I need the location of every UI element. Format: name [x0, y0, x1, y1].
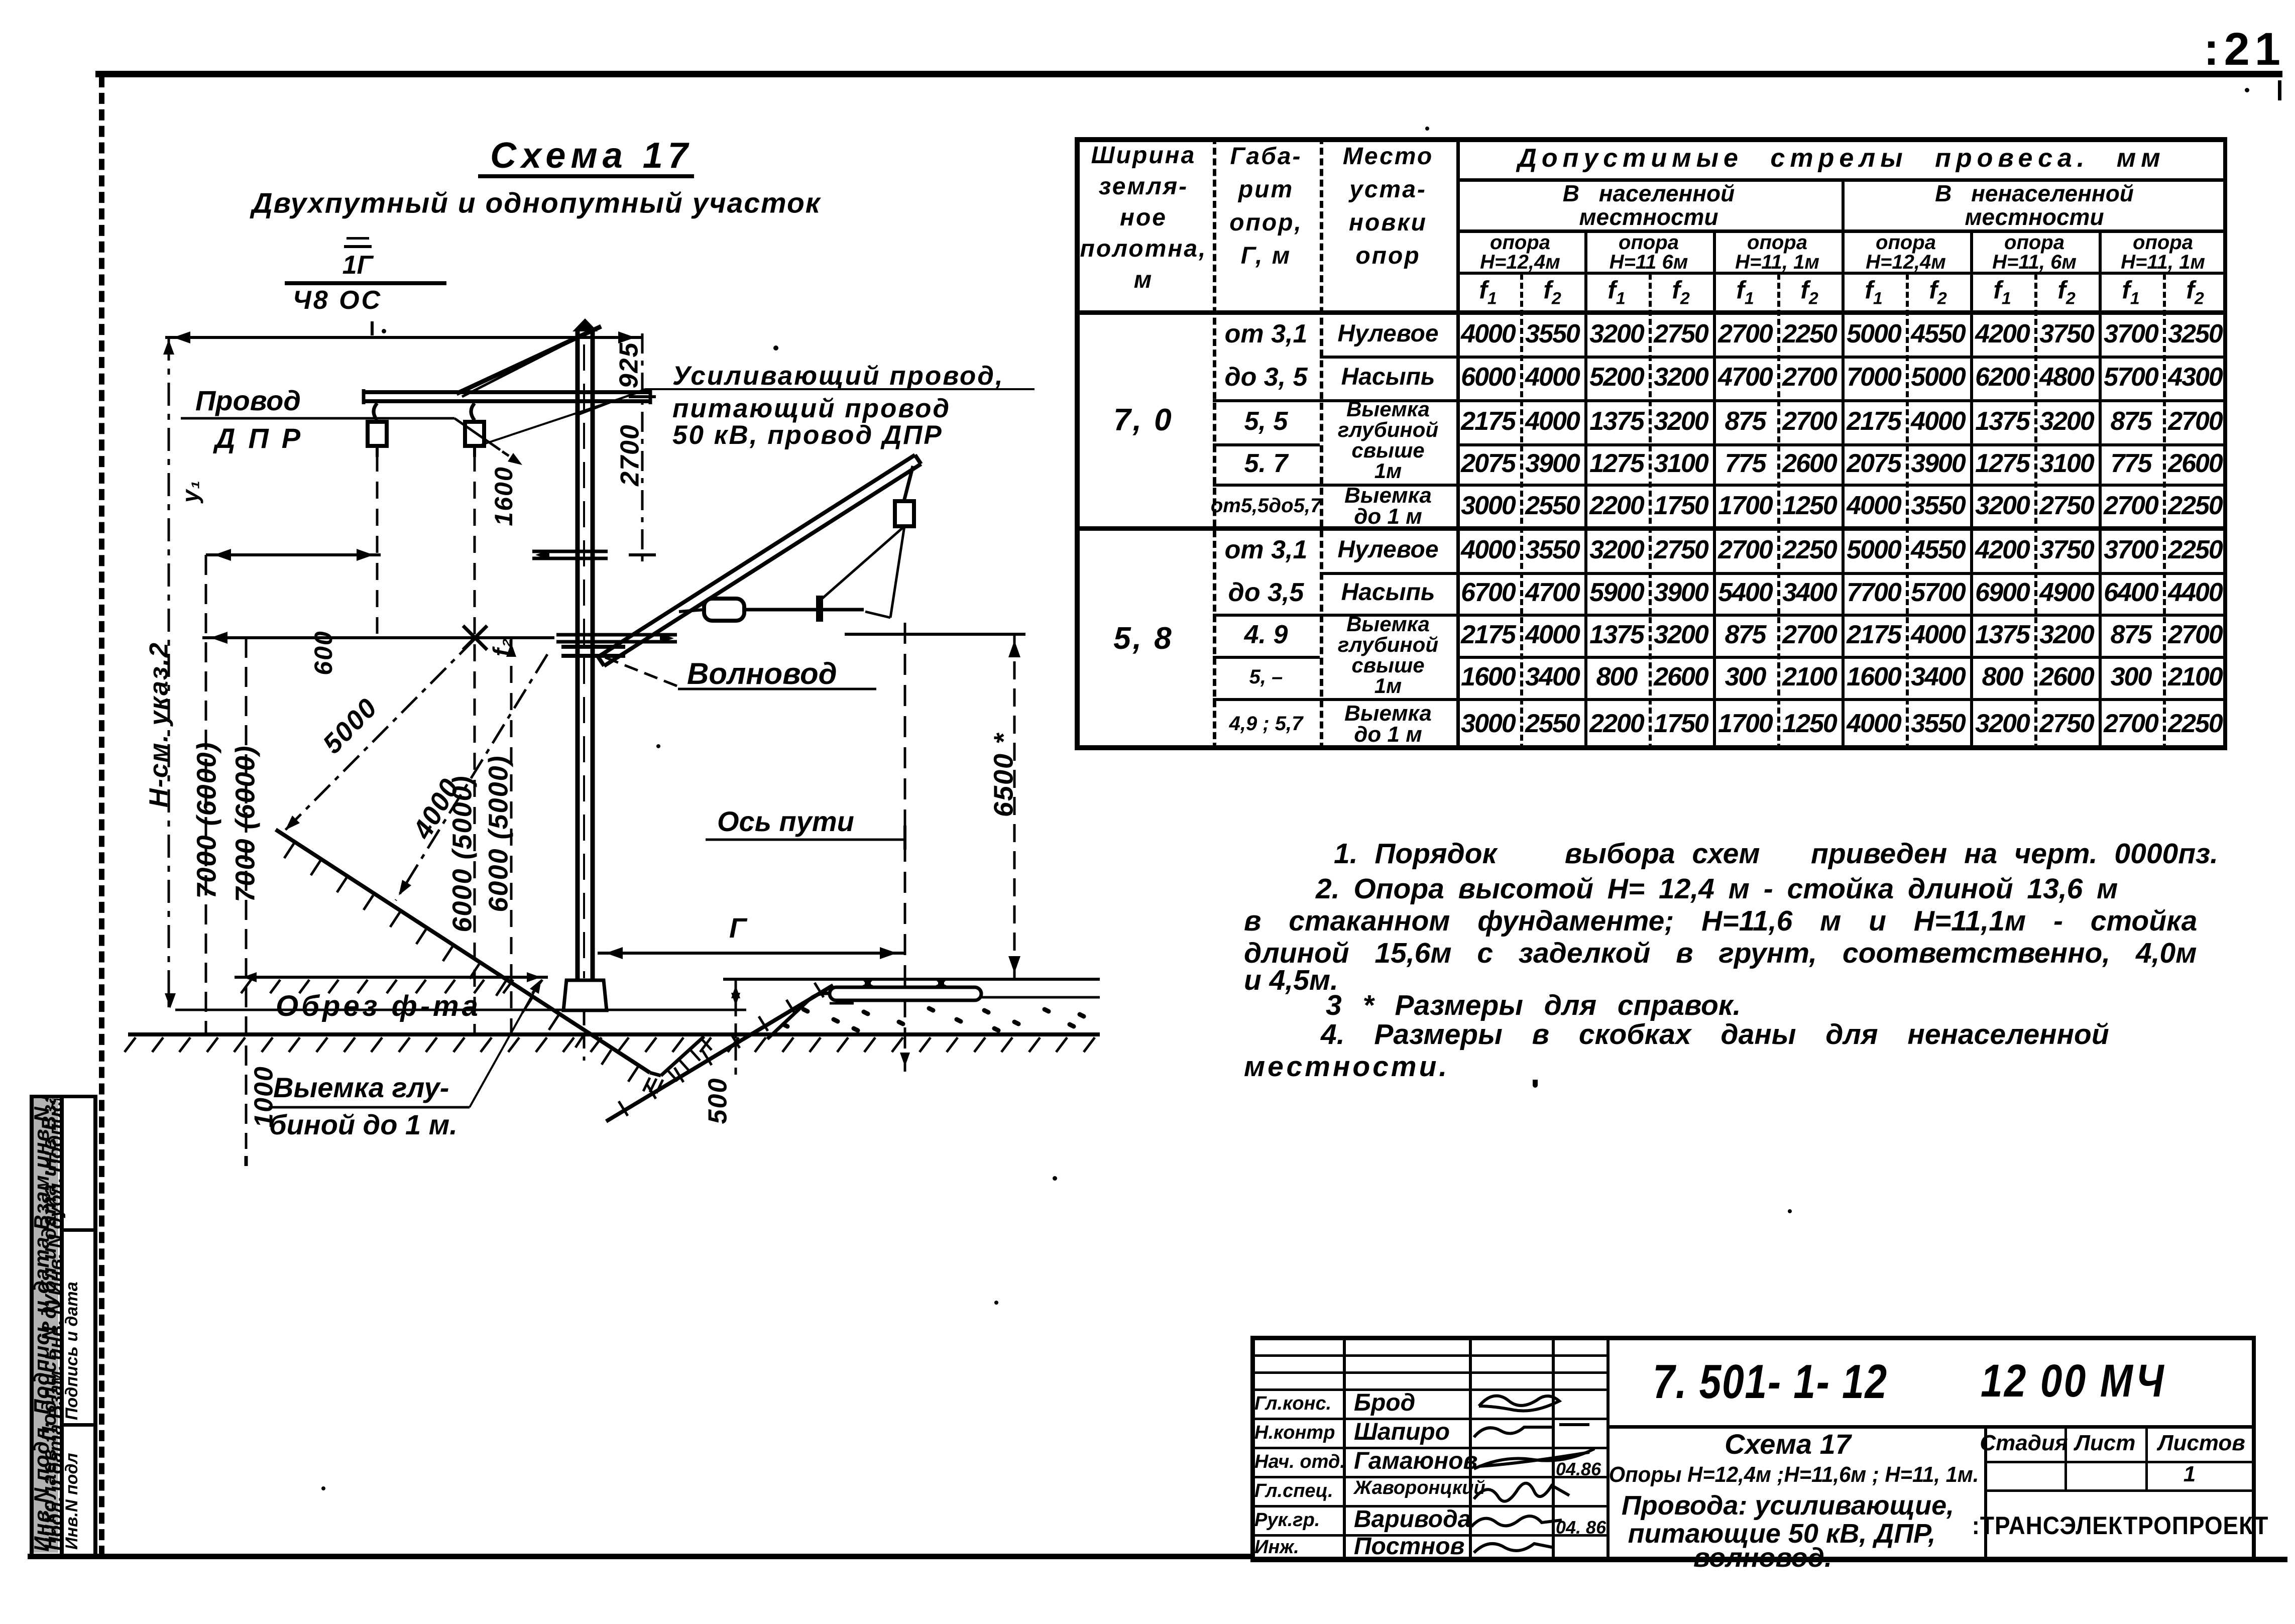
pole bracket upper	[532, 550, 608, 553]
label Волновод	[687, 659, 837, 689]
fraction tick	[371, 321, 374, 335]
table inner row lines	[1320, 356, 2227, 359]
roadbed small line	[830, 1002, 854, 1005]
hatching under main ground line	[125, 1037, 1095, 1052]
stamp vertical dense text	[31, 1097, 52, 1552]
sig Постнов	[1474, 1544, 1554, 1553]
Усиливающий провод leader/underline	[645, 388, 1035, 390]
pole foundation	[563, 980, 607, 1010]
label line2	[672, 395, 951, 422]
table col3 values	[1337, 322, 1438, 346]
embankment slope	[767, 993, 830, 1039]
scan speckles	[773, 345, 778, 351]
sig Гамаюнов	[1474, 1449, 1594, 1469]
title block stadia header	[1980, 1432, 2068, 1454]
rail 1	[859, 979, 877, 987]
hatching under обрез line	[241, 980, 542, 993]
track axis (ось пути) dashed	[904, 623, 906, 1072]
diagonal dim 4000	[396, 654, 547, 900]
table header: Габарит опор	[1230, 145, 1302, 169]
label Г	[729, 914, 746, 942]
Выемка label leader	[269, 1106, 470, 1109]
table col1 values	[1113, 405, 1173, 436]
title block left grid verticals	[1343, 1336, 1346, 1560]
table header: Ширина земляного полотна	[1091, 144, 1196, 168]
stray dot	[1533, 1080, 1538, 1085]
table data values	[1461, 321, 1515, 347]
ditch bottom hatch	[643, 1078, 663, 1093]
waveguide suspension wires	[822, 526, 904, 599]
dimension line 2 at lower wire level	[202, 636, 554, 639]
main ground line	[128, 1032, 1100, 1036]
crossarm (траверса)	[364, 390, 650, 394]
title block narrow top rows	[1250, 1354, 1606, 1357]
stamp strip shading	[32, 1098, 58, 1553]
ditch right slope	[661, 1036, 704, 1076]
ditch right slope hatch	[668, 1039, 712, 1081]
sig Жаворонцкий	[1474, 1483, 1569, 1501]
tick bottom of x=490 line	[245, 1156, 248, 1166]
fraction bar	[285, 281, 446, 285]
ballast dots	[783, 1008, 1084, 1030]
fraction denominator	[293, 287, 382, 313]
6500 dim vertical	[1013, 634, 1016, 978]
rail 2	[932, 979, 950, 987]
vertical dashed dim line 7000(6000) B at x=490	[245, 638, 248, 1149]
Волновод leader	[601, 656, 677, 686]
rail head level line	[726, 978, 1100, 981]
table header: опора H columns	[1490, 233, 1550, 253]
label Обрез ф-та	[276, 992, 481, 1021]
drawing subtitle	[252, 189, 821, 218]
vertical dashed dim line 7000(6000) A at x=410	[205, 555, 207, 1033]
wire axis dashed below insulator 1	[376, 454, 379, 634]
dimension line at ДПР wire level	[206, 553, 381, 556]
label line3	[672, 422, 943, 448]
label Провод ДПР line1	[195, 387, 301, 415]
top overall dimension line	[165, 336, 642, 339]
waveguide (волновод) boom	[598, 455, 915, 657]
500 dim top tick	[723, 978, 749, 981]
sig Шапиро	[1474, 1425, 1589, 1437]
foundation cut level line (обрез ф-та)	[235, 976, 548, 979]
page number 21	[2204, 26, 2285, 72]
hatching under cut slope	[284, 844, 638, 1082]
tick at bracket level	[629, 553, 656, 556]
Провод ДПР leader	[181, 417, 454, 420]
sheet frame left border (dashed)	[99, 76, 104, 1557]
title underline	[478, 174, 694, 178]
vertical dash-dot dim line 925/2700 at x=1279	[641, 333, 644, 567]
title block name rows	[1250, 1418, 1606, 1420]
label усиливающий провод line1	[672, 363, 1004, 389]
roadbed top line right	[981, 996, 1100, 999]
table header horizontal lines	[1456, 178, 2227, 182]
frame top right tick	[2278, 80, 2281, 100]
table col2 values	[1225, 321, 1308, 347]
tick at crossarm level	[629, 395, 656, 398]
pole axis dashed below ground	[583, 1010, 586, 1061]
stamp column borders	[30, 1095, 34, 1556]
table header: Место установки опор	[1343, 145, 1433, 169]
table header: f1 f2 row	[1479, 278, 1497, 307]
table header: в населенной местности	[1563, 182, 1735, 205]
pole bracket lower	[556, 633, 677, 637]
notes text	[1334, 840, 2218, 868]
vertical dash-dot dim line H at x=336	[168, 337, 170, 1008]
wire axis dashed below insulator 2 / dim 6000(5000) A	[474, 454, 476, 1033]
6500 top reference line	[845, 633, 1025, 636]
label Провод ДПР line2	[215, 424, 313, 452]
label Ось пути	[717, 807, 854, 836]
sheet frame bottom border under title block	[1250, 1557, 2287, 1562]
dim line 6000(5000) B at x=1018	[510, 639, 513, 1033]
table header: Допустимые стрелы провеса	[1518, 145, 2165, 171]
fraction overbar 2	[347, 237, 369, 240]
date 1	[1556, 1460, 1601, 1478]
title block organization	[1972, 1513, 2269, 1538]
waveguide top fitting	[904, 466, 913, 501]
sig Брод	[1479, 1396, 1559, 1411]
sheet frame bottom border left part	[28, 1554, 1250, 1559]
dimension line Г	[598, 952, 904, 955]
intermediate ground reference line	[175, 1009, 746, 1011]
title block roles	[1254, 1394, 1331, 1413]
table header bottom line	[1075, 310, 2227, 315]
table outer border	[1075, 137, 2227, 142]
insulator hanger 1	[374, 403, 377, 420]
deep cut slope line	[606, 985, 833, 1121]
title block name cell	[1725, 1430, 1851, 1458]
support pole (опора)	[572, 318, 598, 980]
ditch bottom	[650, 1073, 661, 1076]
fraction numerator 1Г	[342, 252, 373, 278]
crossarm brace	[456, 326, 601, 394]
fraction overbar	[344, 245, 372, 248]
sheet frame top border	[95, 71, 2282, 77]
waveguide clamp	[561, 645, 625, 649]
date 2	[1556, 1519, 1606, 1537]
Ось пути underline	[706, 839, 905, 841]
insulator hanger 2	[471, 403, 475, 420]
500 dim vertical	[735, 979, 737, 1075]
cut slope line	[276, 830, 650, 1073]
label Выемка line1	[273, 1074, 449, 1102]
title block outer border	[1250, 1336, 2256, 1340]
X break marker	[463, 626, 487, 650]
diagonal dim 5000	[282, 639, 475, 834]
title block middle/right divider lines	[1606, 1425, 2256, 1429]
table header: в ненаселенной местности	[1935, 182, 2134, 205]
tension rod assembly	[704, 599, 744, 621]
drawing title Схема 17	[490, 138, 693, 174]
table column lines	[1213, 137, 1216, 750]
sleeper	[830, 987, 981, 1000]
title block document number	[1653, 1358, 1888, 1406]
sig Варивода	[1471, 1516, 1562, 1527]
table group divider line	[1075, 526, 2227, 531]
hatching under deep cut slope	[619, 983, 824, 1116]
label Выемка line2	[269, 1111, 457, 1139]
